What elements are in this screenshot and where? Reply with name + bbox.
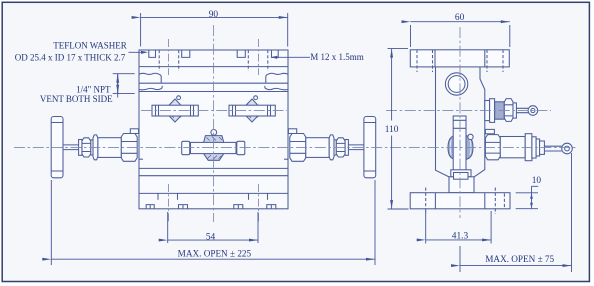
- left vent boss break line (1/4 NPT): [139, 73, 161, 83]
- left stem hex B: [82, 138, 91, 157]
- left packing cylinder: [98, 138, 121, 158]
- top washer slot left-outer: [149, 50, 156, 57]
- dim 41.3 line: [426, 239, 491, 241]
- left stem rod: [63, 145, 79, 150]
- vent valve packing (dark): [495, 102, 505, 119]
- svg-text:110: 110: [385, 125, 399, 135]
- right stem hex D: [329, 135, 334, 160]
- bolt centerline left: [168, 39, 170, 222]
- upper bonnet valve 1 vent circle: [177, 96, 181, 100]
- svg-text:OD 25.4 x ID 17 x THICK 2.7: OD 25.4 x ID 17 x THICK 2.7: [15, 53, 126, 63]
- main side valve disc 3: [536, 139, 540, 156]
- center valve top circle: [211, 130, 217, 136]
- svg-text:MAX. OPEN ± 75: MAX. OPEN ± 75: [485, 254, 554, 264]
- main side valve stem rod: [544, 146, 561, 151]
- dim 54 line: [168, 239, 258, 241]
- vent valve stem rod: [516, 108, 528, 112]
- dim max open 75 extension lines: [460, 153, 572, 272]
- svg-text:41.3: 41.3: [452, 232, 469, 242]
- main side valve disc 4: [540, 141, 545, 154]
- top washer slot right-inner: [237, 50, 245, 57]
- upper bonnets centerline (left view): [141, 110, 287, 112]
- svg-text:10: 10: [532, 176, 542, 186]
- left stem disc C: [91, 140, 93, 155]
- right stem disc C: [334, 140, 336, 155]
- body horizontal line y=168.4: [139, 167, 288, 169]
- right vent boss break line: [266, 73, 288, 83]
- dim 10 extension lines: [516, 193, 538, 209]
- dim 110 line: [391, 49, 393, 121]
- neck block: [449, 177, 474, 193]
- right stem rod: [348, 145, 364, 150]
- main side valve tab: [485, 129, 494, 133]
- svg-text:TEFLON WASHER: TEFLON WASHER: [53, 40, 127, 50]
- body horizontal line y=175.7: [139, 175, 288, 177]
- dim max open 225 line: [51, 258, 375, 260]
- top washer slot right-outer: [272, 50, 279, 57]
- svg-text:90: 90: [209, 10, 219, 20]
- left stem disc A: [79, 140, 82, 156]
- dim 10 shelf: [532, 185, 539, 187]
- left view vertical centerline: [213, 25, 215, 222]
- teflon washer leader: [129, 51, 146, 53]
- center valve cylinder: [191, 142, 237, 153]
- dim 90 line: [141, 16, 288, 18]
- vent valve hex: [504, 99, 513, 122]
- right stem disc A: [345, 140, 348, 156]
- parting corner tick right: [284, 158, 288, 160]
- NPT dim line: [117, 74, 119, 94]
- svg-text:1/4" NPT: 1/4" NPT: [76, 84, 111, 94]
- base band slot walls: [157, 193, 159, 199]
- main side valve ball end: [562, 143, 573, 154]
- center stem vertical: [453, 116, 466, 170]
- base flange top line y=193.4: [139, 192, 288, 194]
- left stem hex D: [93, 135, 98, 160]
- dim max open 225 extension lines: [51, 180, 375, 265]
- dim 41.3 extension lines: [426, 211, 491, 244]
- parting corner tick left: [139, 158, 143, 160]
- left gland tab: [130, 129, 138, 134]
- side bonnet packing: [448, 135, 473, 160]
- dim 90 extension lines: [141, 13, 288, 47]
- base foot slot 2: [179, 205, 188, 209]
- main horizontal centerline: [14, 146, 578, 148]
- right T-handle bar: [364, 117, 376, 178]
- bottom flange: [410, 193, 510, 209]
- M12 leader: [273, 56, 311, 58]
- upper bonnet valve 2 diamond: [241, 99, 263, 122]
- top flange: [410, 50, 509, 67]
- center valve right cap: [237, 141, 245, 154]
- upper bonnet valve 1 cylinder: [152, 105, 198, 116]
- svg-text:60: 60: [455, 13, 465, 23]
- dim 10 line: [531, 186, 533, 208]
- main side valve disc 2: [532, 137, 536, 158]
- side port circle outer: [445, 73, 467, 95]
- vent valve disc 2: [490, 99, 495, 123]
- upper bonnet valve 2 cylinder: [229, 105, 275, 116]
- upper bonnet valve 1 diamond: [164, 99, 186, 122]
- stem collar: [451, 170, 471, 177]
- right packing cylinder: [306, 138, 329, 158]
- bolt centerline right: [258, 39, 260, 222]
- dim max open 75 line: [460, 265, 572, 267]
- svg-text:M 12 x 1.5mm: M 12 x 1.5mm: [310, 52, 364, 62]
- vent valve ball end: [528, 106, 538, 116]
- teflon washer arrowhead: [141, 51, 148, 54]
- vent valve collar: [513, 103, 516, 118]
- base foot slot 3: [234, 205, 243, 209]
- side bonnet circle: [468, 134, 473, 139]
- svg-text:MAX. OPEN ± 225: MAX. OPEN ± 225: [178, 248, 252, 258]
- vent valve disc 1: [485, 101, 490, 121]
- right gland tab: [288, 129, 296, 134]
- center valve left cap: [182, 141, 190, 154]
- body horizontal line y=91.5: [139, 91, 288, 93]
- dim 54 extension lines: [168, 212, 258, 243]
- dim 110 extension lines: [388, 49, 409, 209]
- side view vertical centerline: [459, 27, 461, 218]
- dim 60 extension lines: [411, 25, 510, 47]
- side body outline: [436, 67, 485, 177]
- dim 60 line: [411, 21, 510, 23]
- base foot slot 4: [267, 205, 276, 209]
- top washer slot left-inner: [182, 50, 190, 57]
- left T-handle bar: [51, 117, 63, 178]
- body horizontal line y=66.6 (flange underside): [139, 66, 288, 68]
- main side valve big hex: [485, 135, 500, 160]
- manifold body outline: [139, 50, 288, 209]
- side port circle inner: [448, 76, 465, 93]
- svg-text:54: 54: [206, 233, 216, 243]
- center valve bonnet hex: [204, 136, 224, 161]
- vent valve centerline (side view): [386, 110, 551, 112]
- bolt hole hidden walls (dashed): [159, 50, 268, 71]
- main side valve cylinder: [500, 137, 525, 158]
- NPT dim extension lines: [113, 74, 135, 94]
- base foot slot 1: [146, 205, 154, 209]
- right stem hex B: [336, 138, 345, 157]
- right big hex nut: [290, 134, 306, 162]
- svg-text:VENT BOTH SIDE: VENT BOTH SIDE: [40, 94, 113, 104]
- upper bonnet valve 2 vent circle: [254, 96, 258, 100]
- body horizontal line y=83.2: [139, 82, 288, 84]
- M12 arrowhead: [270, 56, 277, 59]
- main side valve disc 1: [525, 134, 532, 161]
- left big hex nut: [121, 134, 137, 162]
